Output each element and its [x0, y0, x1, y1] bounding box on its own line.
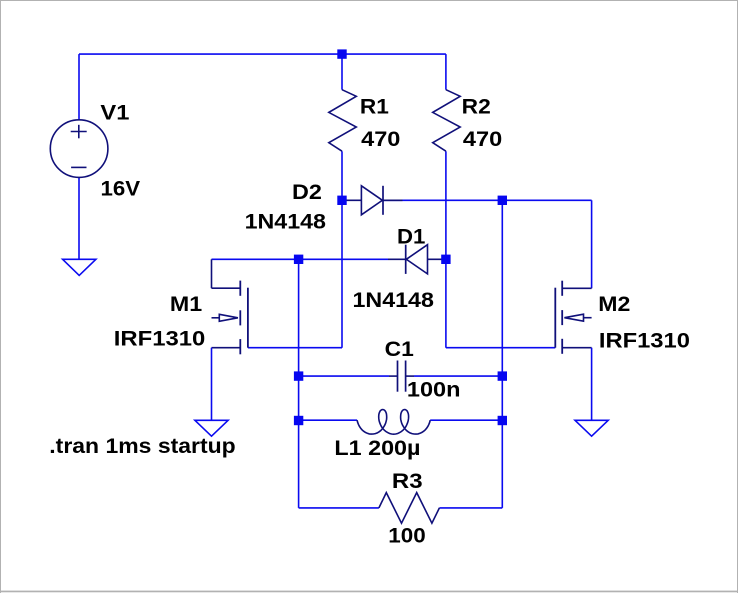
- svg-text:M1: M1: [170, 292, 202, 316]
- svg-text:470: 470: [463, 127, 502, 151]
- node junction M1 drain / tank left: [294, 255, 303, 264]
- wire L1 right lead: [430, 419, 502, 421]
- svg-text:M2: M2: [598, 292, 630, 316]
- M1 channel top dash: [239, 281, 241, 296]
- M2 source lead: [562, 347, 591, 349]
- M1 source lead: [212, 347, 241, 349]
- svg-text:C1: C1: [385, 337, 414, 361]
- svg-text:D2: D2: [292, 180, 322, 204]
- wire R2 top lead: [445, 54, 447, 90]
- resistor R2 zigzag: [433, 90, 461, 152]
- M1 channel middle dash: [239, 310, 241, 325]
- svg-text:IRF1310: IRF1310: [599, 329, 690, 353]
- C1 right plate lead: [406, 375, 414, 377]
- resistor R1 zigzag: [329, 90, 357, 152]
- M2 channel bottom dash: [561, 339, 563, 354]
- node junction C1 left: [294, 371, 303, 380]
- svg-text:V1: V1: [100, 100, 129, 124]
- svg-text:IRF1310: IRF1310: [114, 327, 206, 351]
- node junction top rail / R1: [337, 49, 346, 58]
- C1 left plate: [397, 361, 399, 392]
- wire R3 right lead: [439, 507, 502, 509]
- M2 bulk arrow tail: [584, 317, 592, 319]
- wire left tank vertical: [298, 259, 300, 508]
- D1 cathode bar: [405, 245, 407, 274]
- wire M2 gate lead row: [446, 347, 555, 349]
- svg-text:100: 100: [388, 524, 425, 548]
- wire M1 gate lead row: [248, 347, 342, 349]
- resistor R3 zigzag: [379, 493, 440, 524]
- wire C1 right lead row: [414, 375, 502, 377]
- M1 channel bottom dash: [239, 339, 241, 354]
- C1 right plate: [405, 361, 407, 392]
- wire right tank vertical: [501, 200, 503, 508]
- wire M2 source to ground: [591, 348, 593, 421]
- C1 left plate lead: [389, 375, 398, 377]
- wire L1 left lead: [299, 419, 358, 421]
- D2 cathode bar: [382, 186, 384, 215]
- svg-text:.tran 1ms startup: .tran 1ms startup: [49, 434, 235, 458]
- V1 minus sign: [71, 166, 86, 168]
- wire M2 drain vertical: [591, 200, 593, 288]
- node junction L1 left: [294, 416, 303, 425]
- M1 gate bar: [247, 288, 249, 348]
- svg-text:D1: D1: [397, 224, 426, 248]
- node junction D2 cathode / tank right: [498, 196, 507, 205]
- wire D2 anode lead: [342, 199, 361, 201]
- wire V1 bottom to ground: [78, 177, 80, 259]
- svg-text:16V: 16V: [101, 176, 141, 200]
- svg-text:R1: R1: [360, 94, 389, 118]
- wire R1 bottom to M1 gate row: [341, 151, 343, 348]
- wire D2 cathode to node B: [383, 199, 502, 201]
- node junction L1 right: [498, 416, 507, 425]
- M1 drain lead: [212, 287, 241, 289]
- inductor L1 coil: [357, 410, 430, 435]
- wire top supply rail: [79, 53, 446, 55]
- M1 drain vertical: [211, 259, 213, 288]
- wire R2 bottom to M2 gate row: [445, 151, 447, 348]
- svg-text:R3: R3: [392, 469, 423, 493]
- V1 plus sign horizontal: [71, 131, 87, 133]
- wire D1 anode lead: [428, 258, 446, 260]
- M1 bulk arrow tail: [212, 317, 220, 319]
- M2 gate bar: [554, 288, 556, 348]
- V1 plus sign vertical: [78, 125, 80, 139]
- ground (V1): [63, 259, 96, 275]
- ground (M2): [575, 420, 608, 436]
- node junction C1 right: [498, 371, 507, 380]
- wire V1 top lead: [78, 54, 80, 120]
- M2 drain lead: [562, 287, 591, 289]
- M2 channel top dash: [561, 281, 563, 296]
- diode D2: [361, 186, 382, 215]
- D1 cathode lead: [388, 258, 406, 260]
- node junction D1 anode / R2: [441, 255, 450, 264]
- svg-text:100n: 100n: [407, 378, 461, 402]
- svg-text:1N4148: 1N4148: [245, 210, 327, 234]
- svg-text:470: 470: [361, 127, 400, 151]
- wire M1 source to ground: [211, 348, 213, 421]
- wire R3 left lead: [299, 507, 379, 509]
- node junction R1 / D2 anode: [337, 196, 346, 205]
- svg-text:L1 200µ: L1 200µ: [334, 436, 420, 460]
- ground (M1): [195, 420, 228, 436]
- M1 bulk arrow head: [219, 314, 238, 321]
- wire node B to M2 drain column: [502, 199, 591, 201]
- wire R1 top lead: [341, 54, 343, 90]
- svg-text:1N4148: 1N4148: [353, 288, 435, 312]
- svg-text:R2: R2: [462, 94, 491, 118]
- D2 cathode lead: [383, 199, 403, 201]
- M2 bulk arrow head: [564, 314, 583, 321]
- wire M1 drain row to D1 cathode: [212, 258, 389, 260]
- voltage source V1: [50, 120, 108, 178]
- wire C1 left lead row: [299, 375, 389, 377]
- M2 channel middle dash: [561, 310, 563, 325]
